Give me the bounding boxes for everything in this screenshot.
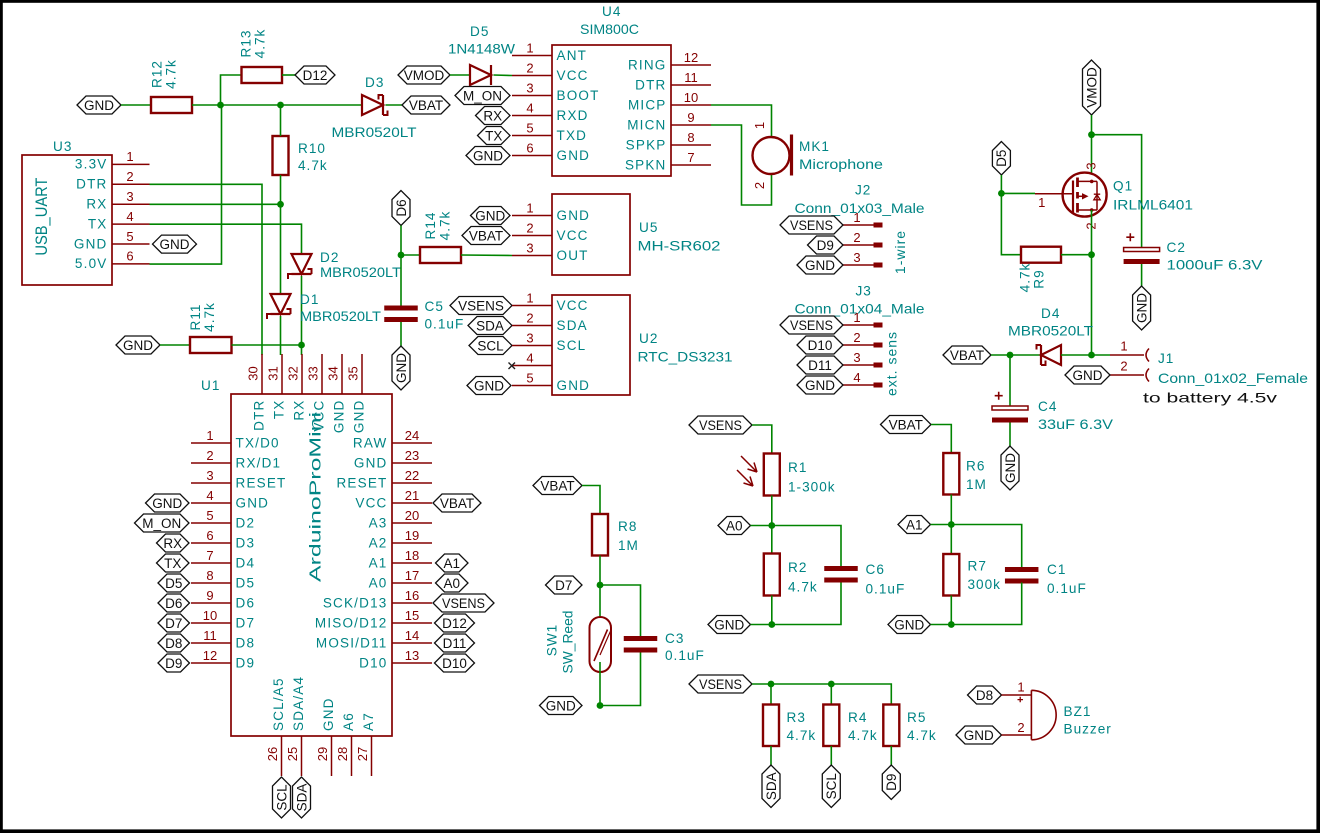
svg-text:3: 3 [206, 468, 213, 483]
wire A0 to junction [751, 525, 772, 527]
svg-text:VSENS: VSENS [458, 298, 504, 313]
svg-text:RX: RX [483, 108, 502, 123]
net label D12 [295, 66, 335, 84]
svg-text:R8: R8 [618, 519, 637, 534]
svg-text:11: 11 [684, 70, 698, 85]
capacitor C3 [624, 636, 658, 653]
svg-text:J3: J3 [856, 284, 872, 299]
wire VBAT to R6 [931, 425, 951, 454]
svg-text:VBAT: VBAT [409, 98, 443, 113]
R13 reference text [239, 30, 254, 58]
wire SW1 to GND junction [599, 662, 601, 706]
svg-text:SIM800C: SIM800C [580, 22, 639, 37]
svg-text:VCC: VCC [312, 400, 327, 432]
resistor R13 [242, 67, 283, 83]
svg-text:6: 6 [526, 140, 533, 155]
svg-text:15: 15 [405, 608, 419, 623]
wire D4 to drain junction [1061, 354, 1092, 356]
wire D1 to U1 pin31 [280, 316, 282, 355]
wire R6 to A1 junction [950, 495, 952, 525]
IC U1 ArduinoProMini body [231, 394, 392, 736]
net label D11 at U1 pin14 [435, 634, 475, 652]
svg-text:GND: GND [84, 98, 114, 113]
SW1 value SW_Reed [561, 611, 576, 674]
svg-text:GND: GND [805, 258, 835, 273]
svg-text:5: 5 [526, 370, 533, 385]
note 1-wire [892, 230, 908, 274]
R14 value 4.7k [438, 211, 453, 241]
wire R14 to U5 pin3 [461, 254, 512, 257]
svg-text:SDA: SDA [294, 784, 309, 812]
U5 pins with numbers and names [512, 200, 590, 262]
svg-text:VBAT: VBAT [889, 417, 923, 432]
svg-text:GND: GND [557, 148, 591, 163]
svg-text:GND: GND [123, 338, 153, 353]
svg-text:MICP: MICP [628, 97, 667, 112]
svg-text:1N4148W: 1N4148W [448, 42, 515, 57]
IC U2 RTC_DS3231 body [552, 295, 630, 395]
svg-text:U2: U2 [639, 331, 658, 346]
svg-text:MBR0520LT: MBR0520LT [300, 309, 381, 324]
svg-text:GND: GND [394, 353, 409, 383]
resistor R11 [190, 337, 232, 353]
wire VMOD to D5 [450, 74, 470, 76]
svg-text:R12: R12 [150, 60, 165, 88]
J1 connector pins female [1110, 339, 1149, 382]
svg-text:D11: D11 [443, 636, 467, 651]
svg-text:C1: C1 [1047, 562, 1066, 577]
svg-text:1: 1 [853, 210, 860, 225]
svg-text:D2: D2 [320, 250, 339, 265]
junction node VBAT/C4/D4 [1007, 352, 1014, 359]
buzzer BZ1 [1017, 680, 1056, 740]
svg-text:SW1: SW1 [545, 624, 560, 656]
svg-text:to battery 4.5v: to battery 4.5v [1143, 391, 1277, 406]
svg-text:4.7k: 4.7k [787, 728, 817, 743]
wire junction to R2 [771, 526, 773, 554]
photoresistor R1 arrows [737, 456, 757, 486]
net label VBAT at U1 pin21 [433, 494, 481, 512]
svg-text:RX: RX [86, 197, 107, 212]
svg-text:VCC: VCC [557, 228, 589, 243]
svg-text:GND: GND [805, 378, 835, 393]
net label VSENS at U2 pin1 [450, 297, 512, 315]
svg-text:D3: D3 [236, 535, 256, 550]
capacitor C2 1000uF [1124, 233, 1160, 264]
svg-text:27: 27 [355, 747, 370, 761]
svg-text:BZ1: BZ1 [1064, 704, 1092, 719]
wire VSENS to R1 [752, 425, 772, 454]
net label D8 at buzzer [968, 686, 1002, 704]
wire junction down to R4 [830, 684, 832, 705]
net label GND at R2 [708, 616, 751, 634]
R11 value 4.7k [202, 302, 217, 332]
wire U4 MICP to microphone pin1 [711, 105, 772, 136]
svg-text:D8: D8 [165, 636, 182, 651]
svg-text:RESET: RESET [236, 475, 287, 490]
svg-text:5: 5 [526, 120, 533, 135]
svg-text:6: 6 [126, 249, 133, 264]
net label GND at U5 pin1 [471, 207, 511, 225]
transistor Q1 IRLML6401 [1035, 162, 1107, 229]
wire VBAT to R8 [582, 486, 600, 515]
svg-text:2: 2 [1120, 359, 1127, 374]
svg-text:D4: D4 [1041, 306, 1060, 321]
wire TX from U3 to D2 branch [150, 224, 302, 254]
svg-text:D10: D10 [808, 338, 833, 353]
wire R4 to SCL label [830, 746, 832, 765]
svg-text:8: 8 [206, 568, 213, 583]
U3 value USB_UART [33, 178, 51, 256]
net label D9 at J2 pin2 [808, 236, 844, 254]
net label GND at U2 pin5 [467, 377, 511, 395]
svg-text:U3: U3 [53, 139, 72, 154]
svg-text:A0: A0 [726, 518, 743, 533]
wire R3 to SDA label [770, 746, 772, 765]
svg-text:VBAT: VBAT [950, 348, 984, 363]
svg-text:3: 3 [853, 250, 860, 265]
svg-text:VMOD: VMOD [404, 68, 445, 83]
svg-text:1: 1 [1017, 680, 1024, 695]
svg-text:MBR0520LT: MBR0520LT [332, 125, 417, 140]
U2 pins with numbers and names [512, 290, 590, 393]
svg-text:D7: D7 [555, 578, 572, 593]
svg-text:GND: GND [352, 400, 367, 434]
wire R2 to GND junction [771, 596, 773, 625]
wire Q1 drain pin2 down [1091, 210, 1093, 255]
wire junction to C1 [951, 525, 1021, 568]
svg-text:Conn_01x02_Female: Conn_01x02_Female [1158, 371, 1308, 386]
resistor R8 [592, 514, 608, 556]
svg-text:D5: D5 [236, 575, 256, 590]
svg-text:SDA: SDA [764, 772, 779, 800]
svg-text:R10: R10 [298, 141, 326, 156]
svg-text:SCL: SCL [824, 773, 839, 800]
svg-text:SCL/A5: SCL/A5 [271, 677, 286, 731]
wire junction down to C4 [1009, 355, 1011, 406]
wire A1 to junction [931, 524, 952, 526]
net label D7 at U1 pin10 [158, 614, 190, 632]
svg-text:4.7k: 4.7k [164, 59, 179, 89]
svg-text:23: 23 [405, 448, 419, 463]
svg-text:GND: GND [474, 378, 504, 393]
wire junction to C2 [1092, 135, 1142, 248]
svg-text:RX: RX [292, 400, 307, 421]
wire junction to C3 [600, 585, 641, 636]
U4 pins with numbers and names [512, 40, 711, 172]
svg-text:TX: TX [164, 556, 181, 571]
svg-text:IRLML6401: IRLML6401 [1113, 198, 1193, 213]
R9 reference text [1032, 269, 1047, 288]
svg-text:A0: A0 [369, 575, 388, 590]
svg-text:6: 6 [206, 528, 213, 543]
svg-text:SDA/A4: SDA/A4 [291, 676, 306, 731]
svg-text:4.7k: 4.7k [253, 29, 268, 59]
resistor R4 [823, 705, 839, 747]
svg-text:1: 1 [752, 122, 767, 129]
junction node D6/R14/C5 [398, 252, 405, 259]
svg-text:10: 10 [684, 90, 698, 105]
wire gate junction to Q1 gate [1001, 192, 1035, 194]
svg-text:GND: GND [546, 698, 576, 713]
svg-text:M_ON: M_ON [142, 516, 181, 531]
net label VSENS at J2 pin1 [780, 216, 843, 234]
svg-text:D10: D10 [359, 655, 387, 670]
svg-text:RTC_DS3231: RTC_DS3231 [638, 350, 733, 365]
svg-text:14: 14 [405, 628, 419, 643]
wire 5.0V from U3 up to R12 junction [150, 105, 222, 264]
svg-text:VSENS: VSENS [442, 596, 485, 611]
svg-text:MBR0520LT: MBR0520LT [1008, 324, 1093, 339]
net label GND at buzzer [956, 726, 1002, 744]
svg-text:1: 1 [206, 428, 213, 443]
net label D10 at U1 pin13 [435, 654, 475, 672]
R9 value 4.7k [1018, 263, 1033, 293]
wire junction to J1 pin1 [1092, 354, 1111, 356]
resistor R2 [764, 554, 780, 596]
net label GND at U1 pin4 [146, 494, 190, 512]
svg-text:D5: D5 [994, 150, 1009, 167]
resistor R5 [883, 705, 899, 747]
resistor R3 [763, 705, 779, 747]
svg-text:C6: C6 [866, 562, 885, 577]
svg-text:16: 16 [405, 588, 419, 603]
svg-text:SDA: SDA [557, 318, 588, 333]
svg-text:ArduinoProMini: ArduinoProMini [308, 412, 325, 582]
svg-text:VSENS: VSENS [790, 218, 833, 233]
svg-text:4.7k: 4.7k [202, 302, 217, 332]
wire D5 label to gate junction [1000, 175, 1002, 193]
svg-text:GND: GND [354, 455, 388, 470]
junction node A1/R6/R7 [948, 521, 955, 528]
wire U4 MICN to microphone pin2 [711, 125, 772, 205]
svg-text:MOSI/D11: MOSI/D11 [316, 635, 388, 650]
net label VBAT at R6 [881, 416, 932, 434]
net label D6 at U1 pin9 [158, 594, 190, 612]
svg-text:0.1uF: 0.1uF [665, 648, 705, 663]
svg-text:D6: D6 [165, 596, 182, 611]
svg-text:21: 21 [405, 488, 419, 503]
J3 connector pins [843, 310, 883, 388]
ground label GND below C2 [1133, 286, 1151, 330]
wire junction to R7 [950, 525, 952, 555]
net label D11 at J3 pin3 [797, 356, 843, 374]
net label GND at J2 pin3 [797, 256, 843, 274]
svg-text:SCL: SCL [557, 338, 587, 353]
svg-text:1M: 1M [966, 477, 987, 492]
wire junction to D4 [1010, 354, 1041, 356]
svg-text:MK1: MK1 [799, 139, 830, 154]
svg-text:TXD: TXD [557, 128, 588, 143]
svg-text:31: 31 [266, 366, 281, 380]
junction node R11/D2/U1 pin32 [298, 342, 305, 349]
svg-text:Microphone: Microphone [799, 157, 883, 172]
svg-text:D5: D5 [165, 576, 182, 591]
wire R13 to D12 label [282, 74, 295, 76]
svg-text:TX: TX [88, 216, 108, 231]
wire junction to C6 bottom [772, 583, 841, 625]
svg-text:D12: D12 [303, 68, 328, 83]
R12 reference text [150, 60, 165, 88]
svg-text:D11: D11 [808, 358, 832, 373]
capacitor C5 [384, 306, 418, 323]
svg-text:3: 3 [526, 240, 533, 255]
svg-text:12: 12 [684, 50, 698, 65]
svg-text:RAW: RAW [353, 435, 388, 450]
svg-text:8: 8 [687, 130, 694, 145]
capacitor C6 [824, 566, 858, 583]
svg-text:GND: GND [557, 208, 591, 223]
net label D10 at J3 pin2 [797, 336, 843, 354]
resistor R14 [420, 247, 461, 263]
svg-text:A0: A0 [443, 576, 460, 591]
svg-text:GND: GND [473, 148, 503, 163]
svg-text:VCC: VCC [557, 298, 589, 313]
wire DTR from U3 to U1 pin30 [150, 184, 263, 355]
svg-text:R5: R5 [907, 710, 926, 725]
svg-text:2: 2 [526, 220, 533, 235]
wire R10 top [280, 105, 282, 136]
svg-text:SDA: SDA [476, 318, 504, 333]
svg-text:D3: D3 [365, 75, 384, 90]
svg-text:35: 35 [346, 366, 361, 380]
net label VBAT [402, 96, 450, 114]
svg-text:33uF 6.3V: 33uF 6.3V [1038, 417, 1113, 432]
U3 pins with numbers and names [74, 149, 150, 271]
wire VBAT to junction [991, 354, 1010, 356]
svg-text:25: 25 [285, 747, 300, 761]
junction node R4 top [828, 681, 835, 688]
U1 bottom pins with numbers and names [265, 676, 376, 776]
svg-text:24: 24 [405, 428, 419, 443]
svg-text:RX: RX [163, 536, 182, 551]
wire R7 to GND junction [950, 596, 952, 625]
svg-text:VMOD: VMOD [1084, 67, 1099, 108]
svg-text:1: 1 [526, 290, 533, 305]
net label VSENS at U1 pin16 [433, 594, 494, 612]
svg-text:D7: D7 [236, 615, 256, 630]
wire R9 to drain junction [1061, 254, 1092, 256]
U1 top pins with numbers and names [246, 354, 367, 433]
net label VBAT at U5 pin2 [462, 227, 510, 245]
svg-text:32: 32 [286, 366, 301, 380]
net label VBAT at R8 [533, 477, 582, 495]
svg-text:D6: D6 [394, 199, 409, 216]
svg-text:GND: GND [321, 697, 336, 731]
R14 reference text [423, 212, 438, 240]
wire R10 bottom to RX junction [280, 175, 282, 204]
wire R11 to junction [232, 344, 302, 346]
svg-text:D5: D5 [470, 24, 489, 39]
svg-text:13: 13 [405, 648, 419, 663]
wire GND to R12 [121, 104, 151, 106]
svg-text:1: 1 [526, 40, 533, 55]
junction node R7/C1 ground [948, 621, 955, 628]
net label RX at U4 [476, 107, 511, 125]
wire GND to R11 [160, 344, 190, 346]
net label VSENS at pullups [689, 675, 752, 693]
R11 reference text [188, 304, 203, 331]
svg-text:A6: A6 [341, 712, 356, 731]
svg-text:3: 3 [526, 330, 533, 345]
svg-text:D8: D8 [976, 688, 993, 703]
svg-text:3: 3 [853, 350, 860, 365]
svg-text:3.3V: 3.3V [75, 157, 108, 172]
junction node R3 top [768, 681, 775, 688]
svg-text:TX: TX [485, 128, 502, 143]
net label VBAT at D4 [943, 346, 991, 364]
wire junction down to R3 [770, 684, 772, 705]
svg-text:D7: D7 [165, 616, 182, 631]
svg-text:RING: RING [628, 57, 667, 72]
R12 value 4.7k [164, 59, 179, 89]
svg-text:4: 4 [526, 100, 533, 115]
wire R12 to junction [192, 104, 221, 106]
net label A0 at divider [718, 517, 751, 535]
svg-text:4.7k: 4.7k [438, 211, 453, 241]
net label TX at U4 [478, 127, 511, 145]
net label GND at R11 [116, 336, 160, 354]
svg-text:2: 2 [206, 448, 213, 463]
IC U5 MH-SR602 body [552, 194, 630, 275]
capacitor C1 [1005, 567, 1038, 584]
net label D9 at U1 pin12 [158, 654, 190, 672]
svg-text:GND: GND [152, 496, 182, 511]
svg-text:GND: GND [236, 495, 270, 510]
net label GND at J3 pin4 [797, 376, 843, 394]
junction node SW1/C3 ground [597, 702, 604, 709]
ground label GND below C5 [392, 346, 410, 390]
svg-text:300k: 300k [968, 577, 1001, 592]
junction node R2/C6 ground [768, 621, 775, 628]
junction node Q1 drain/R9/VBAT line [1088, 251, 1095, 258]
svg-text:R2: R2 [788, 560, 807, 575]
wire C2 to GND [1141, 264, 1143, 286]
svg-text:1: 1 [526, 200, 533, 215]
svg-text:A3: A3 [369, 515, 388, 530]
net label D9 below R5 [882, 765, 900, 800]
wire junction to C3 bottom [600, 653, 641, 706]
svg-text:VBAT: VBAT [440, 496, 474, 511]
svg-text:D8: D8 [236, 635, 256, 650]
svg-text:SCL: SCL [477, 338, 504, 353]
svg-text:C4: C4 [1038, 399, 1057, 414]
svg-text:4.7k: 4.7k [1018, 263, 1033, 293]
svg-text:U4: U4 [602, 4, 621, 19]
net label SCL at U2 pin3 [469, 337, 512, 355]
resistor R6 [943, 453, 959, 495]
svg-text:GND: GND [964, 728, 994, 743]
svg-text:D4: D4 [236, 555, 256, 570]
svg-text:Buzzer: Buzzer [1064, 722, 1112, 737]
svg-text:GND: GND [1134, 293, 1149, 323]
svg-text:1: 1 [1038, 195, 1045, 210]
svg-text:GND: GND [160, 237, 190, 252]
svg-text:1: 1 [1120, 339, 1127, 354]
wire GND to junction [751, 624, 772, 626]
svg-text:D12: D12 [442, 616, 467, 631]
svg-text:5: 5 [206, 508, 213, 523]
svg-text:VCC: VCC [557, 68, 589, 83]
IC U4 SIM800C body [552, 45, 671, 176]
wire R1 to A0 junction [771, 496, 773, 526]
svg-text:C5: C5 [425, 299, 444, 314]
svg-text:GND: GND [894, 617, 924, 632]
diode D3 MBR0520LT [362, 95, 388, 115]
svg-text:D9: D9 [817, 238, 834, 253]
svg-text:SPKN: SPKN [625, 157, 667, 172]
svg-text:2: 2 [126, 169, 133, 184]
